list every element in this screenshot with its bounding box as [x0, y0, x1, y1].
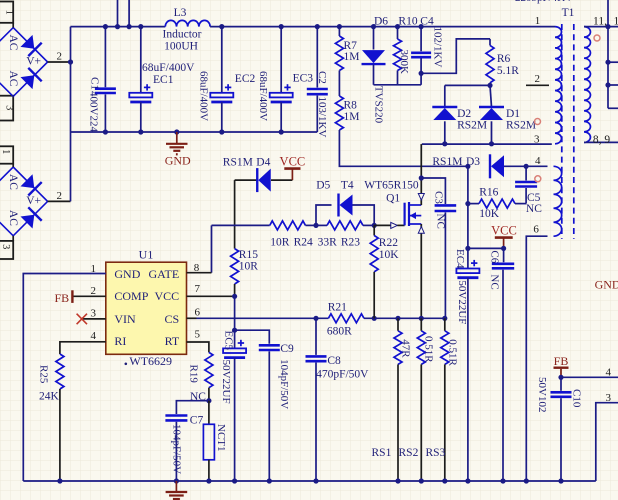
wire Q1 source down: [420, 224, 422, 318]
svg-text:3: 3: [91, 308, 97, 320]
polarity dot (primary pin3): [535, 119, 541, 125]
svg-text:104pF/50V: 104pF/50V: [278, 359, 290, 409]
junction drain / C3: [419, 175, 424, 180]
svg-text:VCC: VCC: [491, 224, 517, 238]
resistor NC1 (box style): [203, 401, 227, 481]
svg-text:680R: 680R: [327, 326, 352, 338]
T1 secondary winding: [584, 27, 590, 143]
capacitor C7: [165, 401, 209, 481]
ground symbol GND (bottom): [166, 481, 188, 499]
capacitor EC3: [257, 27, 313, 132]
bridge rectifier 1: [0, 28, 48, 97]
net label FB (output): [554, 354, 569, 377]
wire tap to edge: [608, 61, 618, 63]
svg-text:10K: 10K: [379, 249, 400, 261]
gate pin arrow: [391, 222, 398, 228]
polarity dot (secondary): [594, 35, 600, 41]
junction R19/C7/NC1: [206, 398, 211, 403]
svg-text:7: 7: [194, 283, 200, 295]
junction on bus: [103, 24, 108, 29]
resistor R15: [231, 249, 259, 297]
svg-text:1: 1: [0, 149, 11, 154]
junction C8 top: [313, 316, 318, 321]
wire gate drive row: [211, 225, 213, 272]
net label FB (COMP pin): [55, 290, 73, 305]
svg-text:103/1KV: 103/1KV: [316, 97, 328, 138]
inductor L3: [165, 20, 210, 26]
wire switching node to T1 pin3: [422, 143, 552, 145]
VCC power symbol (aux): [491, 224, 517, 249]
svg-text:RS2M: RS2M: [457, 120, 487, 132]
wire gate: [374, 224, 390, 226]
svg-text:11,: 11,: [593, 15, 607, 27]
svg-text:AC: AC: [7, 174, 19, 190]
svg-text:V+: V+: [26, 195, 41, 207]
resistor R25: [37, 354, 64, 481]
transistor Q1 WT65R150: [397, 202, 421, 226]
resistor R24: [270, 221, 313, 249]
bridge rectifier 2: [0, 167, 48, 236]
junction C4 bottom: [419, 71, 424, 76]
svg-text:Q1: Q1: [386, 193, 400, 205]
junction on bottom rail: [313, 478, 318, 483]
diode D4 RS1M: [223, 157, 293, 193]
svg-text:EC1: EC1: [153, 74, 174, 86]
svg-text:RS2M: RS2M: [506, 120, 536, 132]
junction on rail: [174, 129, 179, 134]
svg-text:WT65R150: WT65R150: [364, 180, 419, 192]
svg-text:400V224: 400V224: [88, 91, 100, 132]
svg-text:R15: R15: [239, 249, 258, 261]
resistor R6: [486, 39, 519, 86]
svg-text:2: 2: [57, 190, 63, 202]
junction C10 top: [558, 375, 563, 380]
capacitor EC1: [129, 27, 195, 132]
svg-text:EC5: EC5: [222, 331, 234, 351]
svg-text:CS: CS: [165, 312, 180, 326]
svg-text:U1: U1: [139, 247, 154, 261]
svg-text:L3: L3: [174, 7, 187, 19]
svg-text:47R: 47R: [399, 339, 411, 358]
junction on bus: [138, 24, 143, 29]
svg-text:24K: 24K: [39, 391, 60, 403]
svg-text:D5: D5: [316, 180, 330, 192]
wire Q1 drain up to switch node: [420, 144, 422, 205]
resistor R8: [335, 96, 359, 130]
junction RS3 top: [442, 316, 447, 321]
svg-text:AC: AC: [7, 210, 19, 226]
svg-text:10R: 10R: [270, 237, 290, 249]
svg-text:2209pF/4KV: 2209pF/4KV: [515, 0, 573, 4]
diode D5: [316, 180, 374, 226]
svg-text:R16: R16: [479, 186, 498, 198]
capacitor C6: [489, 248, 515, 481]
junction on bus: [127, 24, 132, 29]
junction pin4/C5: [524, 164, 529, 169]
wire top V+ bus (left of L3): [71, 26, 166, 28]
X-cap stub leads (cut off at top): [117, 0, 119, 27]
svg-text:470pF/50V: 470pF/50V: [316, 369, 369, 381]
junction EC4 top: [465, 246, 470, 251]
svg-text:2: 2: [91, 285, 97, 297]
diode D1 RS2M: [479, 85, 536, 143]
svg-text:C1: C1: [89, 77, 101, 90]
capacitor C1: [88, 27, 116, 133]
svg-text:1M: 1M: [344, 51, 360, 63]
junction on bus: [371, 24, 376, 29]
junction on bottom rail: [267, 478, 272, 483]
capacitor EC2: [198, 27, 256, 132]
junction C9 branch: [232, 328, 237, 333]
svg-text:1: 1: [4, 10, 15, 15]
svg-text:Inductor: Inductor: [163, 29, 202, 41]
capacitor C5: [515, 166, 542, 215]
junction on bottom rail: [57, 478, 62, 483]
junction on bus: [115, 24, 120, 29]
junction tap2: [605, 82, 610, 87]
capacitor EC4: [454, 248, 480, 481]
svg-text:3: 3: [606, 392, 612, 404]
junction on bus: [395, 24, 400, 29]
svg-text:RT: RT: [165, 334, 180, 348]
wire secondary right vertical: [607, 0, 609, 108]
svg-text:C2: C2: [316, 71, 328, 84]
svg-text:FB: FB: [554, 354, 569, 368]
svg-text:R10: R10: [398, 16, 417, 28]
U1 pin 8 stub: [187, 272, 212, 274]
wire box1 to bridge1: [12, 23, 14, 28]
svg-text:R19: R19: [187, 365, 199, 384]
capacitor C4: [411, 16, 443, 85]
wire tap2 to edge: [608, 84, 618, 86]
svg-text:4: 4: [91, 330, 97, 342]
svg-text:RS1M: RS1M: [223, 157, 253, 169]
junction on bottom rail: [524, 478, 529, 483]
drain pin arrow: [418, 193, 424, 200]
svg-text:C6: C6: [489, 250, 501, 263]
resistor R22: [370, 225, 399, 318]
capacitor EC5: [220, 330, 246, 481]
U1 pin 6 stub: [187, 317, 197, 319]
svg-text:8: 8: [194, 262, 200, 274]
U1 pin 1 stub: [23, 274, 106, 482]
junction RS2 top: [419, 316, 424, 321]
U1 pin 2 stub: [72, 295, 105, 297]
svg-text:C8: C8: [327, 355, 341, 367]
svg-text:C9: C9: [280, 343, 294, 355]
svg-text:RI: RI: [114, 334, 126, 348]
junction gate node: [372, 223, 377, 228]
svg-text:104pF/50V: 104pF/50V: [171, 424, 183, 474]
wire R24 to node: [306, 224, 317, 226]
svg-text:COMP: COMP: [114, 289, 148, 303]
svg-text:D6: D6: [374, 16, 388, 28]
U1 pin 3 stub: [82, 318, 106, 320]
svg-text:T4: T4: [341, 180, 354, 192]
polarity dot (aux): [535, 176, 541, 182]
capacitor C2: [307, 27, 328, 138]
svg-text:50V102: 50V102: [536, 377, 548, 412]
T1 primary winding: [555, 27, 562, 144]
svg-text:AC: AC: [7, 71, 19, 87]
svg-text:102/1KV: 102/1KV: [432, 27, 444, 68]
resistor R7: [335, 27, 359, 71]
connector pin 3 box: [0, 96, 15, 121]
junction on bottom rail: [465, 478, 470, 483]
wire V+ vertical riser: [70, 27, 72, 202]
wire bridge2 V+ out: [48, 200, 71, 202]
svg-text:100UH: 100UH: [164, 41, 198, 53]
wire D4 anode down to R15: [234, 180, 236, 249]
wire top V+ bus (right of L3): [210, 26, 555, 28]
op-amp U1 WT6629 controller: [106, 247, 187, 368]
svg-text:68uF/400V: 68uF/400V: [198, 71, 210, 121]
svg-text:T1: T1: [562, 7, 575, 19]
wire CS row right: [364, 317, 445, 319]
svg-text:D4: D4: [256, 157, 270, 169]
junction RS1 top: [395, 316, 400, 321]
svg-text:R25: R25: [37, 365, 49, 384]
svg-text:8, 9: 8, 9: [593, 134, 611, 146]
svg-text:EC3: EC3: [293, 72, 314, 84]
svg-text:6: 6: [533, 223, 539, 235]
svg-text:EC4: EC4: [454, 249, 466, 269]
svg-text:1M: 1M: [344, 111, 360, 123]
svg-text:C7: C7: [190, 414, 204, 426]
source pin arrow: [418, 227, 424, 234]
capacitor C8: [306, 318, 370, 481]
svg-text:RS1: RS1: [372, 447, 392, 459]
svg-text:3: 3: [534, 133, 540, 145]
wire VCC vertical: [467, 166, 469, 248]
junction on bus: [219, 24, 224, 29]
svg-text:TVS220: TVS220: [373, 86, 385, 124]
capacitor C10: [536, 377, 583, 481]
resistor RS1: [394, 318, 411, 481]
U1 pin 4 stub: [60, 342, 106, 354]
wire D6/R10 bottoms: [374, 84, 422, 86]
wire R7-R8: [338, 71, 340, 97]
svg-text:1: 1: [535, 15, 541, 27]
wire primary gnd rail: [71, 131, 318, 133]
junction on bottom rail: [500, 478, 505, 483]
junction on rail: [279, 129, 284, 134]
junction D1 anode: [489, 141, 494, 146]
svg-text:R23: R23: [341, 237, 360, 249]
svg-text:D2: D2: [457, 108, 471, 120]
svg-text:R21: R21: [328, 302, 347, 314]
svg-text:68uF/400V: 68uF/400V: [257, 71, 269, 121]
wire output pin3: [596, 403, 618, 481]
svg-text:RS2: RS2: [399, 447, 419, 459]
svg-text:NC: NC: [526, 203, 542, 215]
junction D5 left: [313, 223, 318, 228]
wire CS row: [197, 317, 329, 319]
resistor RS2: [417, 318, 434, 481]
junction on rail: [219, 129, 224, 134]
junction on bus: [315, 24, 320, 29]
svg-text:GND: GND: [595, 278, 618, 292]
junction R16 left: [465, 201, 470, 206]
junction D3 out: [465, 164, 470, 169]
resistor R19: [187, 352, 213, 403]
svg-text:4: 4: [606, 367, 612, 379]
svg-text:R24: R24: [294, 237, 313, 249]
junction secondary top: [605, 24, 610, 29]
U1 pin 7 stub: [187, 295, 235, 297]
svg-text:5: 5: [194, 328, 200, 340]
svg-text:1: 1: [91, 263, 97, 275]
svg-text:10K: 10K: [479, 208, 500, 220]
svg-text:GATE: GATE: [149, 267, 180, 281]
svg-text:33R: 33R: [318, 237, 338, 249]
svg-text:3: 3: [0, 244, 11, 249]
svg-text:V+: V+: [26, 56, 41, 68]
junction on bottom rail: [395, 478, 400, 483]
svg-text:WT6629: WT6629: [129, 354, 172, 368]
svg-text:R22: R22: [379, 237, 398, 249]
T1 aux winding: [554, 166, 562, 236]
resistor R16: [468, 186, 526, 220]
junction on bus: [279, 24, 284, 29]
resistor R21: [327, 302, 364, 338]
diode D3 RS1M: [432, 154, 504, 178]
T1 core: [561, 24, 563, 239]
capacitor C9: [235, 330, 294, 481]
T1 secondary bottom wire pins 8,9: [584, 141, 618, 143]
diode D2 RS2M: [432, 85, 487, 143]
wire T1 pin6 down: [526, 236, 547, 481]
junction R22 bottom: [372, 316, 377, 321]
wire snubber top: [445, 84, 490, 86]
svg-text:R8: R8: [344, 100, 358, 112]
wire bridge1 to box3: [12, 95, 14, 98]
svg-text:EC2: EC2: [235, 73, 256, 85]
svg-text:RS1M: RS1M: [432, 156, 462, 168]
svg-text:FB: FB: [55, 291, 70, 305]
junction on bus: [419, 24, 424, 29]
junction C6 top: [501, 246, 506, 251]
T1 pin 2 stub: [526, 84, 549, 86]
svg-text:VCC: VCC: [155, 289, 180, 303]
svg-text:GND: GND: [165, 154, 191, 168]
svg-text:0.51R: 0.51R: [423, 336, 435, 363]
svg-text:300K: 300K: [398, 50, 410, 75]
no-connect X on pin 3: [77, 314, 87, 325]
junction on bottom rail: [206, 478, 211, 483]
svg-text:10R: 10R: [239, 261, 258, 273]
diode D6 (TVS220): [362, 16, 389, 124]
wire D3 row to T1 pin4: [504, 165, 548, 167]
svg-text:C10: C10: [570, 389, 582, 408]
wire corner to edge: [608, 107, 618, 109]
capacitor C3: [421, 178, 456, 318]
junction on bottom rail: [558, 478, 563, 483]
svg-text:VIN: VIN: [114, 312, 136, 326]
junction R6 bottom: [487, 83, 492, 88]
wire bottom gnd rail: [23, 480, 596, 482]
svg-text:NC: NC: [435, 214, 447, 229]
resistor RS3: [441, 318, 459, 481]
svg-text:AC: AC: [7, 35, 19, 51]
svg-text:5.1R: 5.1R: [497, 65, 519, 77]
svg-text:C3: C3: [432, 191, 444, 204]
junction on bottom rail: [232, 478, 237, 483]
svg-text:NC: NC: [489, 274, 501, 289]
svg-text:GND: GND: [114, 267, 140, 281]
svg-text:6: 6: [194, 306, 200, 318]
wire FB row pin4: [561, 376, 618, 378]
svg-text:2: 2: [535, 73, 541, 85]
svg-text:R6: R6: [497, 53, 511, 65]
svg-text:3: 3: [4, 105, 15, 110]
T1 secondary top wire: [584, 26, 618, 28]
svg-text:VCC: VCC: [280, 154, 306, 168]
junction on bottom rail: [442, 478, 447, 483]
wire R8 down to VCC feed row: [339, 130, 468, 166]
ground symbol GND (primary): [165, 132, 191, 168]
junction on bottom rail: [419, 478, 424, 483]
wire bridge1 V+ out: [48, 61, 71, 63]
connector pin 1 box (bridge 2): [0, 146, 13, 163]
connector pin 3 box (bridge 2): [0, 241, 13, 259]
svg-text:D1: D1: [506, 108, 520, 120]
wire VCC node pin7: [232, 294, 237, 299]
VCC power symbol (D4): [280, 154, 306, 180]
wire bridge2 to box: [12, 236, 14, 241]
svg-text:2: 2: [57, 51, 63, 63]
junction tap: [605, 60, 610, 65]
wire box to bridge2: [12, 164, 14, 167]
junction D2 anode: [442, 141, 447, 146]
svg-text:50V22UF: 50V22UF: [456, 280, 468, 324]
svg-text:NCT1: NCT1: [215, 424, 227, 452]
junction bridge1 out: [68, 59, 73, 64]
svg-text:68uF/400V: 68uF/400V: [142, 62, 195, 74]
resistor R23: [316, 221, 374, 249]
connector pin 1 (top-left box): [0, 2, 15, 23]
junction on bottom rail: [174, 478, 179, 483]
svg-text:0.51R: 0.51R: [447, 339, 459, 366]
U1 pin 5 stub: [187, 342, 209, 352]
wire VCC node: [468, 247, 504, 249]
wire C4 bottom to R6: [421, 39, 490, 73]
svg-text:RS3: RS3: [426, 447, 446, 459]
junction on rail: [103, 129, 108, 134]
svg-text:12: 12: [614, 15, 618, 27]
junction on bus: [337, 24, 342, 29]
resistor R10: [394, 16, 418, 85]
svg-text:4: 4: [535, 155, 541, 167]
junction on rail: [138, 129, 143, 134]
svg-text:50V22UF: 50V22UF: [220, 360, 232, 404]
